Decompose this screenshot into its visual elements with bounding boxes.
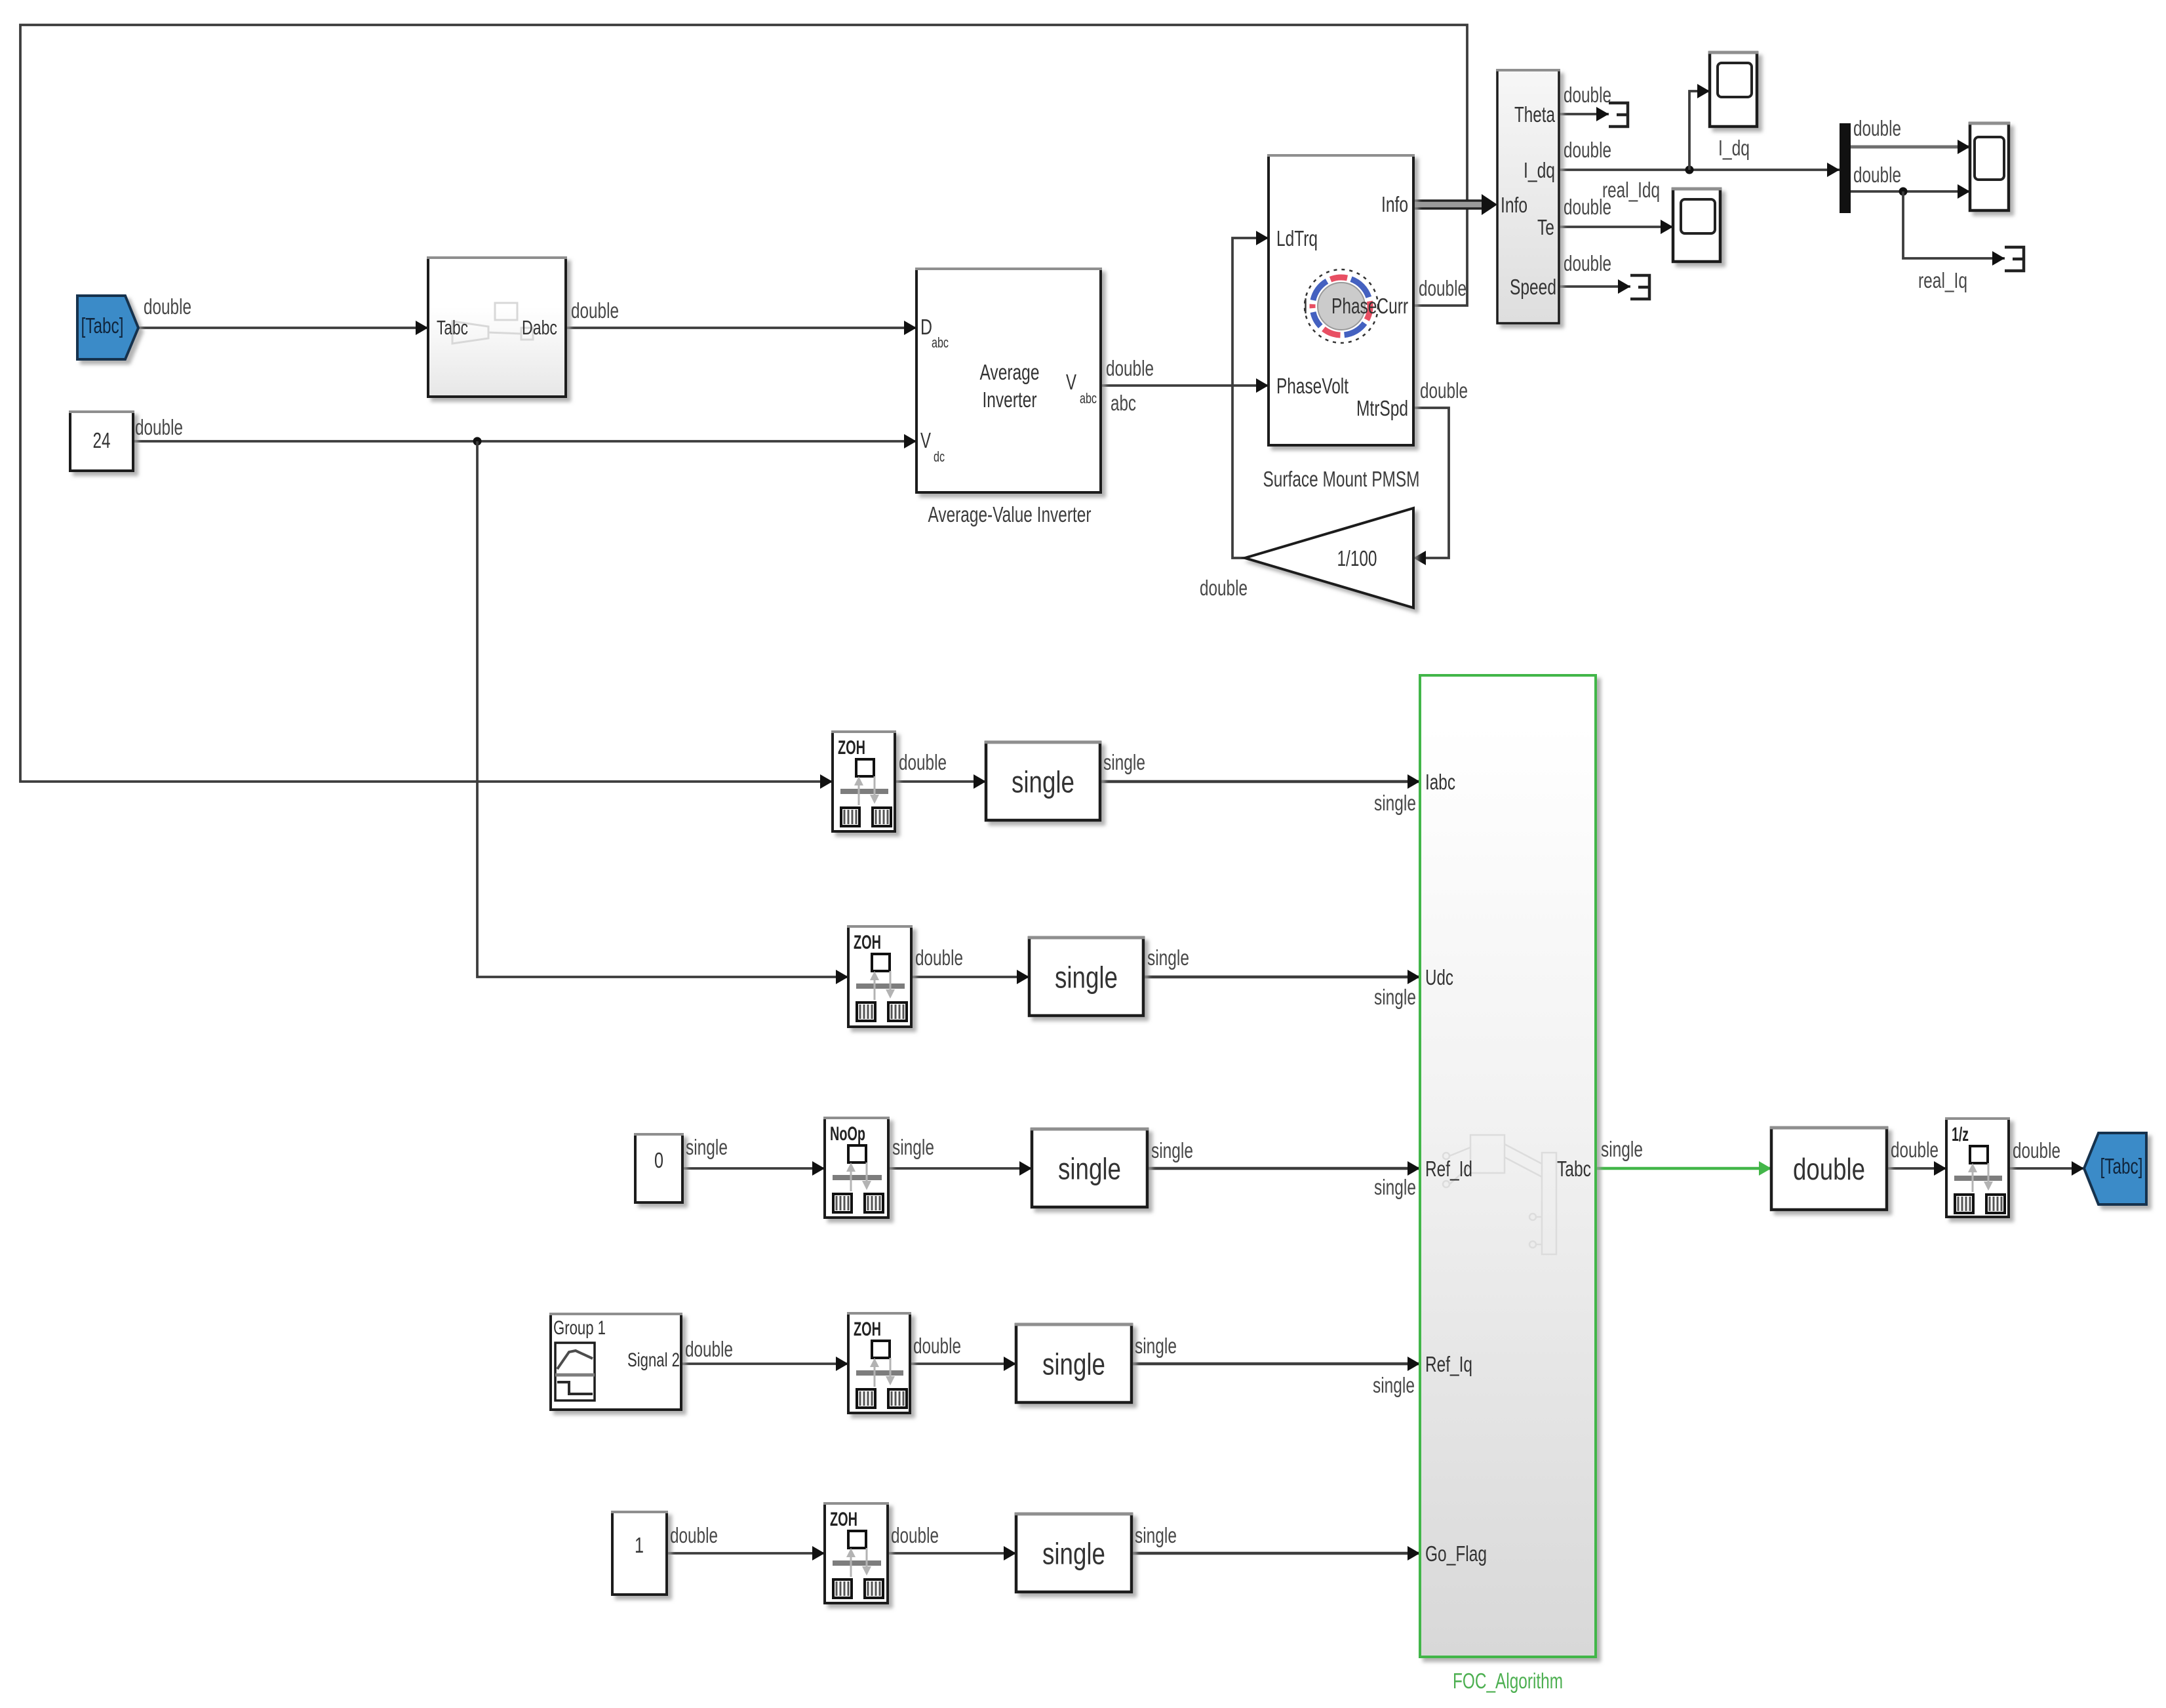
svg-text:double: double (144, 294, 191, 319)
svg-text:PhaseVolt: PhaseVolt (1276, 374, 1349, 398)
svg-text:MtrSpd: MtrSpd (1356, 396, 1408, 420)
svg-text:double: double (915, 945, 963, 970)
svg-text:FOC_Algorithm: FOC_Algorithm (1453, 1669, 1563, 1693)
svg-text:double: double (135, 415, 183, 439)
svg-text:double: double (899, 750, 947, 774)
svg-text:abc: abc (932, 334, 949, 351)
svg-text:double: double (670, 1523, 718, 1547)
svg-text:double: double (1564, 251, 1611, 275)
svg-text:LdTrq: LdTrq (1276, 226, 1318, 250)
svg-text:single: single (1042, 1347, 1105, 1381)
svg-text:single: single (1601, 1137, 1643, 1161)
svg-text:single: single (1042, 1537, 1105, 1571)
svg-text:[Tabc]: [Tabc] (81, 313, 124, 338)
svg-text:ZOH: ZOH (854, 932, 881, 953)
svg-text:Te: Te (1537, 215, 1554, 239)
svg-text:abc: abc (1080, 390, 1097, 407)
svg-text:D: D (920, 315, 932, 339)
svg-text:double: double (1853, 116, 1901, 140)
svg-text:single: single (1135, 1334, 1177, 1358)
svg-text:V: V (1066, 370, 1076, 394)
svg-text:single: single (1151, 1138, 1193, 1162)
svg-text:double: double (2013, 1138, 2060, 1162)
svg-text:double: double (1564, 138, 1611, 162)
svg-text:single: single (1103, 750, 1145, 774)
svg-text:single: single (1012, 765, 1074, 799)
svg-text:Inverter: Inverter (983, 387, 1037, 412)
svg-text:Signal 2: Signal 2 (627, 1349, 680, 1371)
svg-text:double: double (1793, 1152, 1865, 1186)
svg-text:Iabc: Iabc (1425, 770, 1455, 794)
svg-text:1/z: 1/z (1952, 1124, 1969, 1145)
svg-text:ZOH: ZOH (854, 1319, 881, 1340)
svg-text:[Tabc]: [Tabc] (2100, 1154, 2143, 1178)
svg-text:I: I (1303, 294, 1308, 318)
svg-text:Go_Flag: Go_Flag (1425, 1541, 1487, 1566)
svg-text:double: double (685, 1337, 733, 1361)
svg-text:PhaseCurr: PhaseCurr (1331, 294, 1408, 318)
svg-text:Tabc: Tabc (1557, 1157, 1591, 1181)
svg-text:single: single (1058, 1152, 1121, 1186)
svg-text:single: single (1135, 1523, 1177, 1547)
svg-text:double: double (891, 1523, 939, 1547)
svg-text:Info: Info (1381, 192, 1408, 216)
svg-text:I_dq: I_dq (1524, 158, 1555, 182)
svg-text:Info: Info (1501, 193, 1527, 217)
svg-text:Dabc: Dabc (522, 316, 557, 339)
svg-text:Ref_Iq: Ref_Iq (1425, 1352, 1472, 1376)
svg-text:ZOH: ZOH (838, 737, 865, 759)
svg-text:double: double (1564, 83, 1611, 107)
svg-text:double: double (1420, 378, 1468, 403)
svg-text:0: 0 (654, 1148, 663, 1172)
svg-text:double: double (1891, 1138, 1939, 1162)
svg-text:1/100: 1/100 (1337, 546, 1377, 570)
svg-text:dc: dc (934, 448, 945, 465)
svg-text:24: 24 (93, 428, 111, 452)
svg-text:single: single (1373, 1373, 1415, 1397)
svg-text:I_dq: I_dq (1718, 136, 1750, 160)
svg-text:Udc: Udc (1425, 965, 1453, 989)
svg-text:Average: Average (980, 360, 1040, 384)
svg-text:single: single (1374, 1175, 1416, 1199)
svg-text:single: single (1374, 985, 1416, 1009)
svg-text:Theta: Theta (1514, 102, 1555, 127)
svg-text:single: single (1374, 791, 1416, 815)
svg-text:double: double (1200, 576, 1248, 600)
svg-text:single: single (1147, 945, 1189, 970)
svg-text:double: double (1853, 163, 1901, 187)
svg-text:double: double (1106, 356, 1154, 380)
svg-text:double: double (1419, 276, 1467, 300)
svg-text:V: V (920, 428, 931, 452)
svg-text:Average-Value Inverter: Average-Value Inverter (928, 502, 1092, 526)
svg-text:NoOp: NoOp (830, 1123, 865, 1145)
svg-text:double: double (913, 1334, 961, 1358)
svg-text:Group 1: Group 1 (553, 1317, 606, 1339)
svg-text:single: single (686, 1135, 728, 1159)
svg-text:Surface Mount PMSM: Surface Mount PMSM (1263, 467, 1420, 491)
svg-text:single: single (1055, 961, 1118, 995)
svg-text:ZOH: ZOH (830, 1509, 857, 1530)
svg-text:double: double (571, 298, 619, 323)
svg-text:Ref_Id: Ref_Id (1425, 1157, 1472, 1181)
svg-text:real_Iq: real_Iq (1918, 268, 1967, 292)
svg-text:Speed: Speed (1510, 275, 1556, 299)
svg-text:single: single (892, 1135, 934, 1159)
svg-text:Tabc: Tabc (437, 316, 468, 339)
svg-text:double: double (1564, 195, 1611, 219)
svg-text:abc: abc (1111, 391, 1136, 415)
svg-text:1: 1 (635, 1533, 644, 1557)
